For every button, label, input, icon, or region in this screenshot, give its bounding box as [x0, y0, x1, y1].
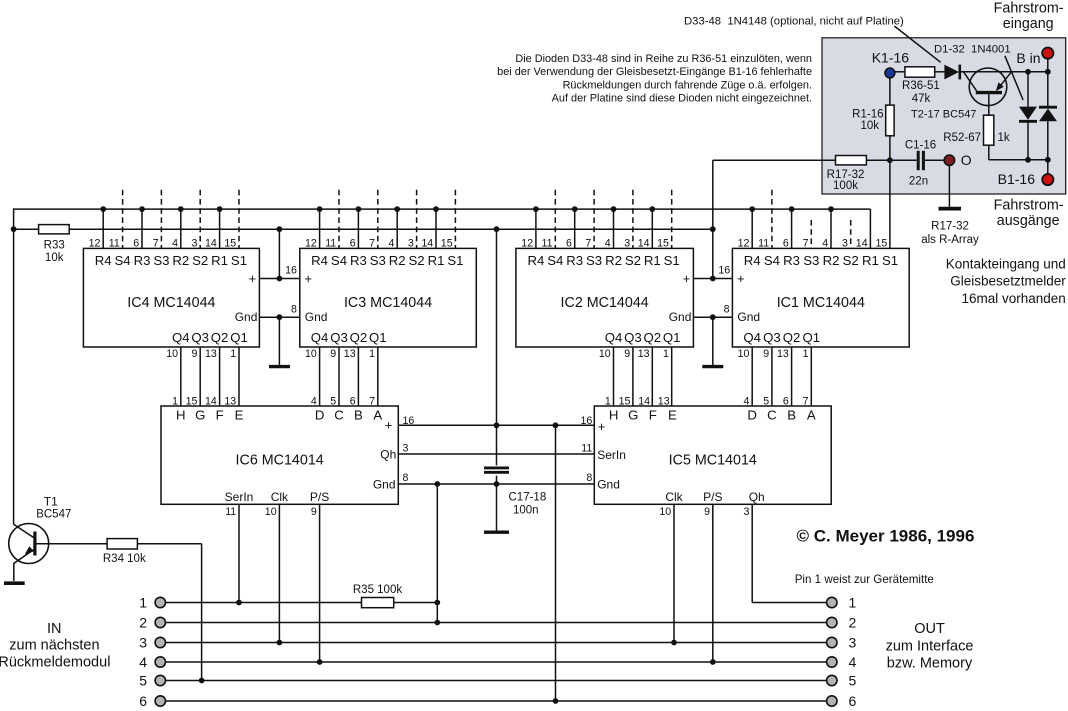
- svg-text:11: 11: [225, 506, 236, 518]
- svg-text:16: 16: [403, 415, 415, 427]
- R-array terminator bar: [939, 207, 962, 211]
- svg-text:14: 14: [638, 396, 650, 408]
- svg-text:47k: 47k: [912, 93, 931, 105]
- ground IC2/IC1: [702, 365, 723, 368]
- svg-text:Q3: Q3: [763, 330, 781, 345]
- svg-text:11: 11: [542, 237, 553, 249]
- svg-text:R1: R1: [428, 253, 445, 268]
- svg-text:Q3: Q3: [330, 330, 348, 345]
- labels pin 3 / pin 11: [403, 442, 593, 454]
- svg-text:B: B: [354, 407, 363, 422]
- svg-text:10: 10: [738, 348, 750, 360]
- svg-text:8: 8: [403, 472, 409, 484]
- ground IC4/IC3: [269, 365, 290, 368]
- svg-text:Q1: Q1: [369, 330, 387, 345]
- svg-text:IC4 MC14044: IC4 MC14044: [127, 295, 215, 311]
- svg-text:Gleisbesetztmelder: Gleisbesetztmelder: [950, 274, 1066, 289]
- svg-text:15: 15: [876, 237, 888, 249]
- svg-text:C1-16: C1-16: [905, 140, 936, 152]
- wire lower +V bus: [14, 228, 713, 230]
- svg-text:15: 15: [441, 237, 453, 249]
- svg-text:H: H: [176, 407, 186, 422]
- svg-text:D: D: [747, 407, 757, 422]
- svg-text:G: G: [195, 407, 205, 422]
- svg-text:IC3 MC14044: IC3 MC14044: [344, 295, 432, 311]
- svg-text:T2-17 BC547: T2-17 BC547: [911, 109, 976, 121]
- label R17-32 100k: [827, 169, 865, 192]
- svg-text:bei der Verwendung der Gleisbe: bei der Verwendung der Gleisbesetzt-Eing…: [497, 66, 812, 78]
- svg-text:13: 13: [205, 348, 217, 360]
- svg-text:IN: IN: [47, 621, 62, 637]
- wire +V bus down to C17-18 and IC6/IC5 supply: [496, 229, 498, 465]
- node B in (track power input): [1016, 48, 1053, 72]
- wire IC6 SerIn to row 1: [236, 504, 242, 605]
- svg-text:15: 15: [224, 237, 236, 249]
- ground C17-18: [484, 531, 509, 534]
- svg-text:H: H: [609, 407, 619, 422]
- svg-text:E: E: [668, 407, 677, 422]
- svg-text:14: 14: [205, 396, 217, 408]
- junction node left bus corner: [11, 226, 17, 232]
- svg-text:4: 4: [388, 237, 394, 249]
- svg-text:1: 1: [803, 348, 809, 360]
- svg-text:R4: R4: [311, 253, 328, 268]
- svg-text:1: 1: [139, 594, 147, 610]
- wire diode to transistor and B-in rail: [961, 69, 1051, 75]
- callout line 1N4001 to diode pair: [1005, 56, 1023, 100]
- svg-text:1k: 1k: [998, 132, 1010, 144]
- svg-text:16: 16: [581, 415, 593, 427]
- svg-text:B1-16: B1-16: [998, 171, 1036, 187]
- latch IC1 MC14044: [732, 237, 909, 406]
- svg-text:S4: S4: [547, 253, 563, 268]
- svg-text:Gnd: Gnd: [235, 310, 258, 324]
- svg-text:13: 13: [344, 348, 356, 360]
- svg-text:C: C: [767, 407, 777, 422]
- svg-text:Q1: Q1: [663, 330, 681, 345]
- svg-text:SerIn: SerIn: [597, 448, 626, 462]
- labels pin 8 IC6/IC5: [403, 472, 593, 484]
- svg-text:7: 7: [369, 237, 375, 249]
- svg-text:14: 14: [421, 237, 433, 249]
- svg-text:Q1: Q1: [230, 330, 248, 345]
- label pin 8 of IC2/IC1: [724, 303, 730, 315]
- label D1-32 1N4001: [934, 43, 1011, 55]
- label R35 100k: [353, 584, 402, 596]
- svg-text:Q2: Q2: [211, 330, 229, 345]
- svg-text:D: D: [315, 407, 325, 422]
- svg-text:F: F: [216, 407, 224, 422]
- svg-text:3: 3: [191, 237, 197, 249]
- svg-text:12: 12: [305, 237, 317, 249]
- svg-text:5: 5: [849, 672, 857, 688]
- svg-text:R3: R3: [566, 253, 583, 268]
- svg-text:S3: S3: [370, 253, 386, 268]
- svg-text:4: 4: [743, 396, 749, 408]
- svg-text:ausgänge: ausgänge: [997, 213, 1060, 229]
- label R52-67 1k: [943, 132, 1010, 144]
- svg-text:9: 9: [624, 348, 630, 360]
- svg-text:Q4: Q4: [605, 330, 623, 345]
- svg-text:S3: S3: [803, 253, 819, 268]
- svg-text:A: A: [807, 407, 816, 422]
- capacitor C1-16: [918, 151, 923, 170]
- wire IC2/IC1 + supply (pin 16): [693, 276, 732, 282]
- svg-text:zum Interface: zum Interface: [886, 638, 974, 654]
- svg-text:C17-18: C17-18: [509, 492, 547, 504]
- svg-text:eingang: eingang: [1003, 16, 1054, 32]
- svg-text:14: 14: [638, 237, 650, 249]
- wire C17-18 lower lead: [496, 476, 498, 531]
- svg-text:als R-Array: als R-Array: [921, 234, 979, 246]
- svg-text:+: +: [598, 419, 606, 434]
- svg-text:13: 13: [658, 396, 670, 408]
- label D33-48 1N4148 note: [684, 16, 904, 28]
- node B1-16 (track power output): [998, 171, 1054, 187]
- svg-text:3: 3: [139, 634, 147, 650]
- label R17-32 als R-Array: [921, 220, 979, 246]
- svg-text:S1: S1: [882, 253, 898, 268]
- label Kontakteingang note: [946, 256, 1067, 306]
- svg-text:R1: R1: [211, 253, 228, 268]
- label R36-51 47k: [902, 80, 940, 105]
- svg-text:4: 4: [139, 654, 147, 670]
- svg-text:S4: S4: [764, 253, 780, 268]
- svg-text:R3: R3: [134, 253, 151, 268]
- svg-text:+: +: [304, 271, 312, 286]
- svg-text:K1-16: K1-16: [872, 49, 910, 65]
- svg-text:R1-16: R1-16: [852, 109, 883, 121]
- wire R52-67 to B1-16 rail: [989, 145, 1051, 163]
- svg-text:1: 1: [605, 396, 611, 408]
- svg-text:OUT: OUT: [914, 621, 945, 637]
- diode D1-32 (series): [944, 65, 959, 80]
- svg-text:13: 13: [638, 348, 650, 360]
- svg-text:R17-32: R17-32: [931, 220, 969, 232]
- label copyright: [797, 526, 975, 545]
- svg-text:B: B: [787, 407, 796, 422]
- svg-text:6: 6: [350, 396, 356, 408]
- svg-text:10: 10: [599, 348, 611, 360]
- svg-text:10: 10: [659, 506, 671, 518]
- wire K1-16 to R36-51: [895, 71, 905, 73]
- svg-text:S1: S1: [664, 253, 680, 268]
- note paragraph about D33-48 diodes: [497, 53, 812, 105]
- resistor R35: [362, 598, 394, 608]
- svg-text:7: 7: [153, 237, 159, 249]
- svg-text:S4: S4: [115, 253, 131, 268]
- svg-text:P/S: P/S: [703, 490, 722, 504]
- wire +V drop to IC4/IC3 supply: [278, 229, 280, 278]
- svg-text:9: 9: [191, 348, 197, 360]
- wire IC4/IC3 gnd lead: [278, 317, 280, 365]
- svg-text:Clk: Clk: [271, 490, 289, 504]
- svg-text:R4: R4: [744, 253, 761, 268]
- svg-text:13: 13: [224, 396, 236, 408]
- svg-text:16: 16: [285, 264, 297, 276]
- svg-text:13: 13: [777, 348, 789, 360]
- resistor R36-51: [905, 67, 935, 77]
- svg-text:Q1: Q1: [803, 330, 821, 345]
- svg-text:S2: S2: [625, 253, 641, 268]
- svg-text:Gnd: Gnd: [669, 310, 692, 324]
- svg-text:IC2 MC14044: IC2 MC14044: [561, 295, 649, 311]
- wire +V drop to row 6: [553, 425, 559, 704]
- svg-text:3: 3: [849, 634, 857, 650]
- svg-text:9: 9: [311, 506, 317, 518]
- wire IC4/IC3 + supply (pin 16): [259, 276, 299, 282]
- svg-text:D33-48 1N4148 (optional, nich: D33-48 1N4148 (optional, nicht auf Plati…: [684, 16, 904, 28]
- wire IC4/IC3 Gnd (pin 8): [259, 314, 299, 320]
- svg-text:3: 3: [624, 237, 630, 249]
- svg-text:Q4: Q4: [172, 330, 190, 345]
- label pin 8 of IC4/IC3: [291, 303, 297, 315]
- svg-text:R2: R2: [389, 253, 406, 268]
- wire IC5 Qh to OUT row 1: [751, 504, 753, 602]
- svg-text:S1: S1: [447, 253, 463, 268]
- wire IC6 Qh to IC5 SerIn: [398, 453, 594, 455]
- wire K1-16 down through R1-16 to IC1 S1: [889, 78, 891, 249]
- label C1-16 22n: [905, 140, 936, 188]
- svg-text:9: 9: [763, 348, 769, 360]
- svg-text:Clk: Clk: [665, 490, 683, 504]
- node K1-16 (contact input): [872, 49, 910, 78]
- svg-text:Fahrstrom-: Fahrstrom-: [994, 197, 1064, 213]
- transistor T1 BC547: [9, 524, 49, 582]
- wire upper R-bus: [14, 208, 871, 210]
- wire IC5 Clk to row 3: [671, 504, 677, 645]
- svg-text:15: 15: [657, 237, 669, 249]
- shift register IC5 MC14014: [594, 396, 831, 518]
- label T1 BC547: [36, 494, 71, 520]
- svg-text:Qh: Qh: [749, 490, 765, 504]
- svg-text:100n: 100n: [513, 504, 539, 516]
- wires R-pin verticals (reset inputs to R-bus): [103, 209, 870, 248]
- svg-text:3: 3: [408, 237, 414, 249]
- svg-text:BC547: BC547: [36, 508, 71, 520]
- svg-text:Gnd: Gnd: [305, 310, 328, 324]
- wires connector rows 1-6: [166, 603, 827, 702]
- svg-text:R3: R3: [783, 253, 800, 268]
- svg-text:Gnd: Gnd: [597, 477, 620, 491]
- svg-text:12: 12: [738, 237, 750, 249]
- svg-text:15: 15: [619, 396, 631, 408]
- svg-text:S2: S2: [843, 253, 859, 268]
- svg-text:5: 5: [330, 396, 336, 408]
- svg-text:R35 100k: R35 100k: [353, 584, 402, 596]
- svg-text:R17-32: R17-32: [827, 169, 865, 181]
- svg-text:D1-32 1N4001: D1-32 1N4001: [934, 43, 1011, 55]
- svg-text:5: 5: [139, 672, 147, 688]
- wire +V bus corner up to R17-32: [713, 159, 836, 161]
- svg-text:4: 4: [605, 237, 611, 249]
- svg-text:10: 10: [166, 348, 178, 360]
- svg-text:S3: S3: [586, 253, 602, 268]
- wire C1-16 to node O: [925, 159, 944, 161]
- callout line D33-48 to series diode: [894, 26, 940, 62]
- svg-text:6: 6: [849, 693, 857, 709]
- svg-text:+: +: [385, 418, 393, 433]
- svg-text:S2: S2: [192, 253, 208, 268]
- svg-text:© C. Meyer 1986, 1996: © C. Meyer 1986, 1996: [797, 526, 975, 545]
- svg-text:Q4: Q4: [311, 330, 329, 345]
- svg-text:R4: R4: [527, 253, 544, 268]
- svg-text:7: 7: [803, 396, 809, 408]
- svg-text:IC1 MC14044: IC1 MC14044: [777, 295, 865, 311]
- svg-text:16mal vorhanden: 16mal vorhanden: [961, 291, 1065, 306]
- svg-text:Rückmeldungen durch fahrende Z: Rückmeldungen durch fahrende Züge o.ä. e…: [563, 79, 812, 91]
- svg-text:R1: R1: [862, 253, 879, 268]
- svg-text:Pin 1 weist zur Gerätemitte: Pin 1 weist zur Gerätemitte: [795, 573, 934, 586]
- junction dots on +V bus: [277, 226, 716, 232]
- svg-text:S3: S3: [153, 253, 169, 268]
- svg-text:G: G: [628, 407, 638, 422]
- svg-text:11: 11: [581, 442, 592, 454]
- wire IC6 P/S to row 4: [317, 504, 323, 665]
- svg-text:11: 11: [325, 237, 336, 249]
- label Pin 1 note: [795, 573, 934, 586]
- svg-text:Q3: Q3: [624, 330, 642, 345]
- svg-text:+: +: [249, 271, 257, 286]
- svg-text:S1: S1: [231, 253, 247, 268]
- svg-text:22n: 22n: [909, 175, 928, 187]
- track-detector block (shaded): [822, 38, 1066, 194]
- wire T1 base to R34: [37, 543, 108, 545]
- svg-text:F: F: [649, 407, 657, 422]
- svg-text:9: 9: [330, 348, 336, 360]
- svg-text:A: A: [373, 407, 382, 422]
- IN connector pads 1-6: [139, 594, 165, 709]
- svg-text:6: 6: [139, 693, 147, 709]
- svg-text:C: C: [334, 407, 344, 422]
- svg-text:Q4: Q4: [743, 330, 761, 345]
- label OUT block: [886, 621, 974, 671]
- svg-text:6: 6: [783, 237, 789, 249]
- label Fahrstrom-eingang: [994, 0, 1064, 32]
- node O (output to R-array): [944, 152, 972, 168]
- svg-text:5: 5: [763, 396, 769, 408]
- wire left vertical (R-bus to T1 collector): [13, 208, 15, 524]
- svg-text:1: 1: [369, 348, 375, 360]
- svg-text:Q2: Q2: [350, 330, 368, 345]
- wire node O down to R-array bar: [948, 165, 950, 206]
- svg-text:IC5 MC14014: IC5 MC14014: [669, 452, 757, 468]
- svg-text:S2: S2: [409, 253, 425, 268]
- svg-text:R36-51: R36-51: [902, 80, 940, 92]
- svg-text:P/S: P/S: [310, 490, 329, 504]
- svg-text:S4: S4: [331, 253, 347, 268]
- svg-text:7: 7: [803, 237, 809, 249]
- svg-text:10: 10: [265, 506, 277, 518]
- resistor R52-67: [984, 115, 994, 145]
- svg-text:14: 14: [856, 237, 868, 249]
- wire R36-51 to D1-32: [935, 71, 945, 73]
- svg-text:R3: R3: [350, 253, 367, 268]
- svg-text:SerIn: SerIn: [225, 490, 254, 504]
- svg-text:R52-67: R52-67: [943, 132, 981, 144]
- svg-text:8: 8: [291, 303, 297, 315]
- wire R17-32 feed from +V bus down to IC2/IC1 supply: [712, 160, 714, 278]
- wire R17-32 to C1-16: [866, 157, 916, 163]
- resistor R17-32: [836, 156, 867, 165]
- junction dots on R-bus: [100, 206, 834, 212]
- wire IC2/IC1 Gnd (pin 8): [693, 314, 732, 320]
- svg-text:4: 4: [311, 396, 317, 408]
- svg-text:4: 4: [849, 654, 857, 670]
- svg-text:R2: R2: [172, 253, 189, 268]
- svg-text:12: 12: [521, 237, 533, 249]
- svg-text:zum nächsten: zum nächsten: [9, 637, 99, 653]
- dashed S-pin set-input lines: [123, 190, 851, 249]
- svg-text:1: 1: [172, 396, 178, 408]
- svg-text:E: E: [235, 407, 244, 422]
- label Fahrstrom-ausgaenge: [994, 197, 1064, 229]
- svg-text:Die Dioden D33-48 sind in Reih: Die Dioden D33-48 sind in Reihe zu R36-5…: [515, 53, 812, 65]
- resistor R34: [107, 539, 137, 549]
- wire T2 base down to R52-67: [988, 94, 990, 115]
- svg-text:R2: R2: [823, 253, 840, 268]
- wire IC5 P/S to row 4: [710, 504, 716, 665]
- svg-text:Kontakteingang und: Kontakteingang und: [946, 256, 1066, 271]
- svg-text:1: 1: [849, 594, 857, 610]
- svg-text:Auf der Platine sind diese Dio: Auf der Platine sind diese Dioden nicht …: [552, 93, 812, 105]
- svg-text:2: 2: [139, 614, 147, 630]
- svg-text:O: O: [961, 152, 972, 168]
- svg-text:Gnd: Gnd: [373, 477, 396, 491]
- svg-text:R1: R1: [644, 253, 661, 268]
- label C17-18 100n: [509, 492, 547, 517]
- label pin 16 of IC4/IC3: [285, 264, 297, 276]
- svg-text:R2: R2: [605, 253, 622, 268]
- svg-text:B in: B in: [1016, 50, 1040, 66]
- svg-text:9: 9: [704, 506, 710, 518]
- resistor R33: [39, 225, 70, 234]
- wire IC6 Clk to row 3: [277, 504, 283, 645]
- labels IC5 left-side pins (+ SerIn Gnd): [597, 419, 626, 491]
- labels pin 16 IC6/IC5: [403, 415, 593, 427]
- svg-text:15: 15: [186, 396, 198, 408]
- wire IC6-IC5 Gnd (pin 8): [398, 481, 594, 487]
- svg-text:4: 4: [172, 237, 178, 249]
- svg-text:10k: 10k: [860, 120, 879, 132]
- svg-text:11: 11: [758, 237, 769, 249]
- svg-text:6: 6: [133, 237, 139, 249]
- svg-text:12: 12: [89, 237, 101, 249]
- svg-text:4: 4: [822, 237, 828, 249]
- diode pair D1-32 right (up): [1039, 72, 1057, 174]
- svg-text:3: 3: [403, 442, 409, 454]
- svg-text:Q2: Q2: [783, 330, 801, 345]
- capacitor C17-18: [484, 468, 509, 472]
- svg-text:3: 3: [743, 506, 749, 518]
- svg-text:6: 6: [566, 237, 572, 249]
- label R1-16 10k: [852, 109, 883, 132]
- label R33 10k: [44, 240, 65, 264]
- label R34 10k: [103, 553, 146, 565]
- transistor T2-17 BC547: [964, 68, 1012, 106]
- svg-text:Fahrstrom-: Fahrstrom-: [994, 0, 1064, 16]
- svg-text:Q3: Q3: [191, 330, 209, 345]
- svg-text:Rückmeldemodul: Rückmeldemodul: [0, 654, 110, 670]
- wire IC6-IC5 + supply (pin 16): [398, 422, 594, 428]
- svg-text:14: 14: [205, 237, 217, 249]
- wire R34 to IN row 5: [137, 544, 204, 684]
- svg-text:16: 16: [718, 264, 730, 276]
- label pin 16 of IC2/IC1: [718, 264, 730, 276]
- svg-text:11: 11: [109, 237, 120, 249]
- latch IC4 MC14044: [83, 237, 259, 406]
- shift register IC6 MC14014: [161, 396, 398, 518]
